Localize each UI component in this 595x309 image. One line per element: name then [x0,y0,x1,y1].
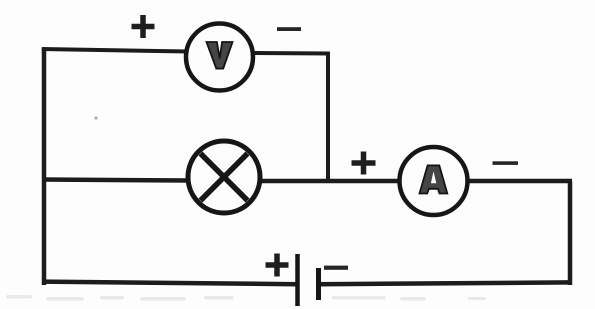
ammeter label A counter [431,171,436,183]
ammeter label A [420,165,448,193]
plus sign ammeter [352,152,376,175]
faint scan ghost text bottom [6,295,486,301]
wire middle right segment [466,179,572,184]
wire top left segment [42,49,188,52]
ammeter U2 circle [400,147,468,215]
wire left vertical [42,48,47,285]
minus sign ammeter [493,161,519,165]
lamp X cross [201,154,248,201]
plus sign battery [266,254,289,277]
wire middle center segment [258,179,400,184]
wire bottom right segment [318,282,572,284]
wire right vertical [568,181,573,285]
plus sign voltmeter [132,15,155,38]
scan speck [94,116,97,119]
wire top right segment [252,51,330,56]
minus sign voltmeter [277,27,301,31]
wire right upper vertical [326,53,330,181]
battery B1 short plate (negative) [316,268,321,300]
minus sign battery [324,266,348,270]
voltmeter U1 circle [186,24,253,91]
wire bottom left segment [42,282,297,285]
lamp L1 circle [188,141,260,213]
wire middle left segment [42,180,190,181]
battery B1 long plate (positive) [295,254,300,306]
voltmeter label V [207,42,233,69]
